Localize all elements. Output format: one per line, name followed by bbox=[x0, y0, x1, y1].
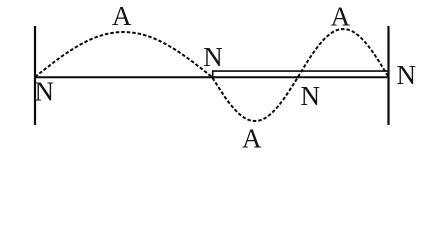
svg-text:N: N bbox=[203, 42, 223, 72]
svg-text:A: A bbox=[242, 124, 262, 154]
wire: thick rope box left edge bbox=[212, 70, 214, 78]
left wall bbox=[34, 26, 36, 125]
svg-text:N: N bbox=[301, 81, 321, 111]
wire: thin string segment + box bottom (baseline) bbox=[34, 76, 389, 78]
svg-text:A: A bbox=[331, 2, 351, 32]
standing wave (dashed) bbox=[35, 29, 389, 121]
svg-text:A: A bbox=[112, 1, 132, 31]
svg-text:N: N bbox=[34, 77, 54, 107]
svg-text:N: N bbox=[397, 60, 417, 90]
right wall bbox=[387, 26, 389, 125]
wire: thick rope box top edge bbox=[212, 70, 389, 72]
